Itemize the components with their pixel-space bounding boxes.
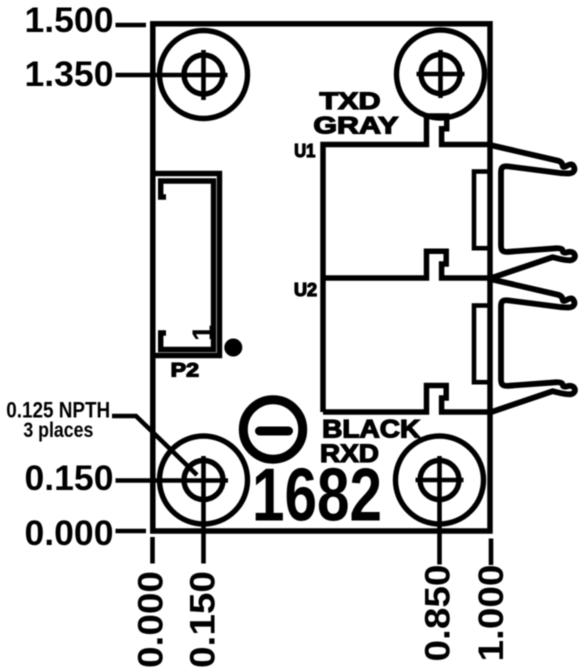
dimension line 0.150 (left) [116, 478, 229, 483]
connector P2 outer outline [151, 174, 220, 356]
mounting hole top-right outer [397, 30, 485, 118]
svg-text:GRAY: GRAY [313, 112, 398, 139]
dimension line 0.150 (bottom, through hole) [201, 456, 206, 564]
dimension line 1.350 [116, 73, 228, 78]
pin-1 dot of P2 [224, 339, 242, 357]
svg-text:1.500: 1.500 [25, 1, 114, 40]
dimension line 1.500 [116, 23, 147, 28]
board outline [153, 24, 490, 531]
svg-text:1: 1 [188, 325, 220, 341]
polarity minus bar [260, 427, 289, 436]
mounting hole top-left crosshair vertical [201, 50, 206, 100]
dimension line 0.850 (bottom, through hole) [437, 456, 442, 565]
battery clip U2 [490, 279, 575, 413]
svg-text:0.150: 0.150 [183, 571, 223, 668]
svg-text:0.850: 0.850 [418, 565, 458, 662]
mounting hole bottom-right crosshair horizontal [416, 478, 464, 483]
component U2 bottom edge with notch [323, 386, 490, 413]
svg-text:TXD: TXD [320, 88, 381, 115]
svg-text:U2: U2 [294, 280, 317, 300]
leader line 0.125 NPTH [112, 416, 197, 475]
connector P2 inner outline [161, 181, 214, 350]
svg-text:P2: P2 [171, 360, 199, 382]
svg-text:3 places: 3 places [23, 419, 93, 442]
mounting hole top-right inner [421, 55, 460, 94]
svg-text:0.150: 0.150 [25, 459, 114, 498]
mounting hole bottom-right outer [396, 436, 484, 524]
pad U1 at board edge [474, 172, 490, 249]
svg-text:0.000: 0.000 [131, 571, 171, 668]
component U1 bottom edge with notch [323, 251, 490, 278]
mounting hole bottom-left outer [160, 436, 248, 524]
mounting hole top-left outer [160, 31, 248, 119]
polarity mark circle [243, 400, 302, 459]
mounting hole bottom-right inner [420, 461, 459, 500]
svg-text:1682: 1682 [252, 453, 382, 537]
dimension line 0.000 (left) [116, 529, 147, 534]
component U2 body outline left edge [320, 278, 326, 412]
svg-text:1.000: 1.000 [471, 565, 511, 662]
svg-text:U1: U1 [294, 141, 315, 161]
dimension tick 0.000 (bottom) [150, 537, 155, 564]
dimension tick 1.000 (bottom) [489, 539, 494, 566]
component U1 body outline [323, 116, 490, 278]
pad U2 at board edge [474, 306, 490, 383]
svg-text:0.000: 0.000 [25, 514, 114, 553]
mounting hole top-right crosshair [417, 50, 465, 98]
mounting hole top-left inner [184, 55, 223, 94]
mounting hole bottom-left inner [184, 461, 223, 500]
battery clip U1 [490, 145, 575, 279]
svg-text:1.350: 1.350 [25, 55, 114, 94]
